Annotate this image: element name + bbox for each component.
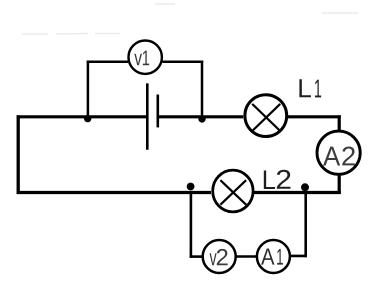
label L2 bbox=[264, 170, 291, 189]
node: junction dot right of lamp L2 bbox=[301, 183, 309, 191]
wire: lamp L1 to A2 corner bbox=[287, 115, 341, 118]
battery short plate bbox=[157, 95, 160, 128]
wire: sub-loop right vertical (to bottom main wire) bbox=[304, 191, 307, 257]
wire: A2 top vertical bbox=[338, 115, 341, 131]
node: junction dot right of battery bbox=[198, 115, 205, 122]
wire: bottom main wire left segment (left corner to lamp L2) bbox=[17, 191, 211, 194]
wire: voltmeter V1 branch top-right horizontal bbox=[163, 61, 204, 64]
wire: V2 to A1 bbox=[236, 255, 256, 258]
ammeter A1 bbox=[257, 240, 290, 273]
wire: voltmeter V1 branch left vertical bbox=[87, 61, 90, 117]
wire: voltmeter V1 branch top-left horizontal bbox=[87, 61, 128, 64]
node: junction dot left of lamp L2 bbox=[187, 183, 195, 191]
wire: bottom main wire right segment (lamp L2 to A2 drop) bbox=[254, 191, 341, 194]
node: junction dot left of battery bbox=[84, 115, 91, 122]
battery long plate bbox=[146, 83, 149, 149]
voltmeter V1 bbox=[129, 41, 162, 74]
wire: voltmeter V1 branch right vertical bbox=[201, 61, 204, 117]
lamp L2 bbox=[213, 170, 253, 212]
wire: sub-loop left vertical (to V2) bbox=[190, 192, 193, 258]
lamp L1 bbox=[245, 95, 287, 137]
wire: A2 bottom vertical bbox=[338, 175, 341, 195]
wire: left vertical side of main loop bbox=[17, 115, 20, 194]
voltmeter V2 bbox=[203, 240, 236, 273]
wire: sub-loop left horizontal to V2 bbox=[190, 255, 203, 258]
wire: top main wire left segment (left corner to battery long plate) bbox=[17, 115, 147, 118]
ammeter A2 bbox=[317, 131, 360, 174]
wire: A1 to sub-loop right corner bbox=[290, 255, 307, 258]
label L1 bbox=[299, 79, 321, 97]
wire: battery to lamp L1 bbox=[158, 115, 243, 118]
